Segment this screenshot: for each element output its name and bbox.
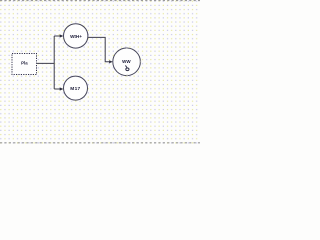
arrowhead into top circle [60,34,64,37]
wire: branch to top circle [54,35,60,37]
svg-text:WW: WW [122,59,131,64]
node WH+ (top circle) [63,24,87,48]
svg-text:WtH+: WtH+ [70,34,82,39]
arrowhead into right circle [109,60,113,63]
bottom dashed page border [0,142,200,144]
port mark bottom [126,75,128,76]
wire: rect P1 to junction [37,62,55,64]
wire: vertical branch trunk [53,36,55,89]
wire: branch to bottom circle [54,88,60,90]
port mark top [126,47,128,48]
mouse cursor glyph inside right circle [125,65,129,70]
port mark right [140,61,141,63]
arrowhead into bottom circle [60,87,64,90]
svg-text:M17: M17 [70,86,80,92]
node P1 (dashed rectangle) [12,54,37,75]
node MET (bottom circle) [64,76,88,100]
node WR (right circle) [113,47,141,76]
wire: top circle to right circle (orthogonal) [88,37,109,61]
svg-text:Pla: Pla [21,60,28,65]
top dashed page border [0,0,200,2]
canvas background [0,0,200,144]
